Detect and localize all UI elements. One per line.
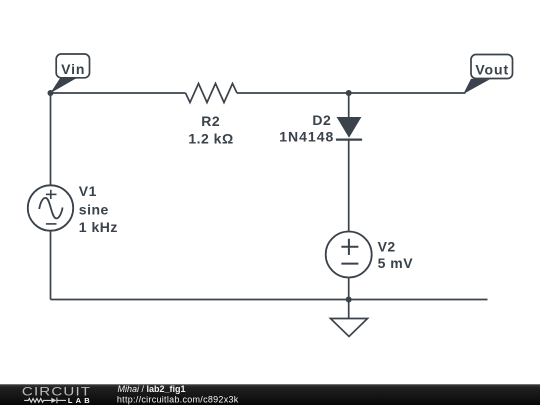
CircuitLab logo resistor-diode glyph row bbox=[24, 398, 66, 404]
svg-text:LAB: LAB bbox=[68, 396, 93, 405]
wire left vertical (V1 bottom to bottom rail) bbox=[50, 231, 52, 300]
wire left vertical (Vin node to V1 top) bbox=[50, 93, 52, 186]
svg-text:http://circuitlab.com/c892x3k: http://circuitlab.com/c892x3k bbox=[117, 395, 239, 405]
wire bottom rail horizontal bbox=[51, 299, 488, 301]
svg-text:1.2 kΩ: 1.2 kΩ bbox=[188, 131, 233, 147]
svg-text:D2: D2 bbox=[312, 112, 331, 128]
wire diode branch middle (D2 cathode to V2 top) bbox=[348, 140, 350, 232]
svg-text:V2: V2 bbox=[378, 239, 396, 255]
wire top horizontal right segment (R2 to Vout) bbox=[237, 92, 466, 94]
svg-text:sine: sine bbox=[79, 201, 109, 217]
voltage source V1 (sine) bbox=[28, 185, 73, 230]
svg-text:1N4148: 1N4148 bbox=[279, 129, 334, 145]
resistor R2 zigzag bbox=[186, 84, 238, 103]
svg-text:V1: V1 bbox=[79, 183, 97, 199]
svg-text:R2: R2 bbox=[201, 113, 220, 129]
svg-text:Vin: Vin bbox=[61, 61, 85, 77]
voltage source V2 bbox=[326, 232, 372, 278]
footer bar background bbox=[0, 384, 540, 405]
svg-text:1 kHz: 1 kHz bbox=[79, 219, 118, 235]
wire diode branch upper (top node to D2 anode) bbox=[348, 93, 350, 117]
CircuitLab logo diode triangle bbox=[51, 398, 56, 403]
diode D2 bbox=[336, 117, 362, 140]
node junction dot at Vin bbox=[48, 90, 54, 96]
wire top horizontal left segment (Vin node to R2) bbox=[51, 92, 186, 94]
ground symbol bbox=[331, 319, 368, 337]
svg-text:Vout: Vout bbox=[475, 62, 509, 78]
node junction dot bottom rail bbox=[346, 297, 352, 303]
node Vout flag bbox=[463, 55, 512, 95]
node junction dot top of diode branch bbox=[346, 90, 352, 96]
svg-text:5 mV: 5 mV bbox=[378, 255, 414, 271]
node Vin flag bbox=[50, 54, 89, 93]
wire ground stub bbox=[348, 300, 350, 319]
wire diode branch lower (V2 bottom to bottom rail) bbox=[348, 278, 350, 300]
svg-text:Mihai / lab2_fig1: Mihai / lab2_fig1 bbox=[118, 384, 186, 394]
